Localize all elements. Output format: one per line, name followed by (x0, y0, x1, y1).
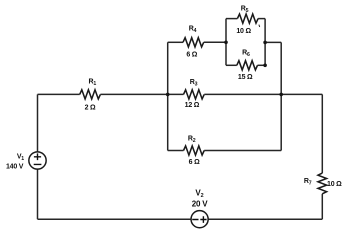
wire box left vertical (225, 19, 227, 66)
wire R2 branch: R2 to mid vertical (204, 150, 281, 152)
resistor R3 (184, 79, 205, 109)
node: box right mid junction (263, 41, 267, 45)
resistor R2 (184, 135, 205, 166)
wire bottom right (from V2) (208, 218, 322, 220)
svg-text:140 V: 140 V (6, 163, 24, 170)
svg-text:2 Ω: 2 Ω (85, 104, 96, 111)
svg-text:6 Ω: 6 Ω (189, 159, 200, 166)
resistor R1 (80, 79, 101, 112)
wire box right vertical (264, 19, 266, 66)
node: mid vertical / main wire junction (279, 93, 283, 97)
node: R4 branch / box left junction (224, 41, 228, 45)
resistor R7 (304, 173, 342, 194)
svg-text:10 Ω: 10 Ω (327, 181, 342, 188)
wire bottom left (to V2) (38, 218, 192, 220)
wire right vertical (below R7) (321, 194, 323, 219)
voltage source V2 (191, 189, 208, 228)
wire box top: R5 to right (258, 18, 265, 20)
wire left vertical (bottom half, below V1) (37, 169, 39, 219)
node: box right bottom junction (263, 64, 267, 68)
resistor R4 (183, 25, 204, 58)
wire R4 branch: R4 to box left (204, 41, 226, 43)
wire main top: R3 to right edge (204, 93, 322, 95)
wire right vertical (above R7) (321, 94, 323, 173)
wire main top: left edge to R1 (38, 93, 80, 95)
svg-text:15 Ω: 15 Ω (238, 74, 253, 81)
svg-text:20 V: 20 V (192, 199, 209, 208)
voltage source V1 (6, 152, 46, 170)
wire mid vertical (280, 42, 282, 150)
wire box bottom: R6 to right (258, 64, 266, 66)
node: left bus / main wire junction (166, 93, 170, 97)
svg-text:12 Ω: 12 Ω (185, 102, 200, 109)
wire box top: left to R5 (226, 18, 237, 20)
svg-text:6 Ω: 6 Ω (186, 51, 197, 58)
resistor R5 (236, 5, 258, 34)
wire left bus vertical (167, 42, 169, 150)
stray tick mark right of 10 ohm label (258, 25, 261, 27)
wire R2 branch: bus to R2 (168, 150, 184, 152)
resistor R6 (237, 49, 258, 81)
wire left vertical (top half, above V1) (37, 94, 39, 151)
wire box output to mid vertical (265, 41, 281, 43)
svg-text:10 Ω: 10 Ω (236, 28, 251, 35)
wire main top: R1 to R3 (100, 93, 183, 95)
wire R4 branch: bus to R4 (168, 41, 183, 43)
wire box bottom: left to R6 (226, 64, 237, 66)
